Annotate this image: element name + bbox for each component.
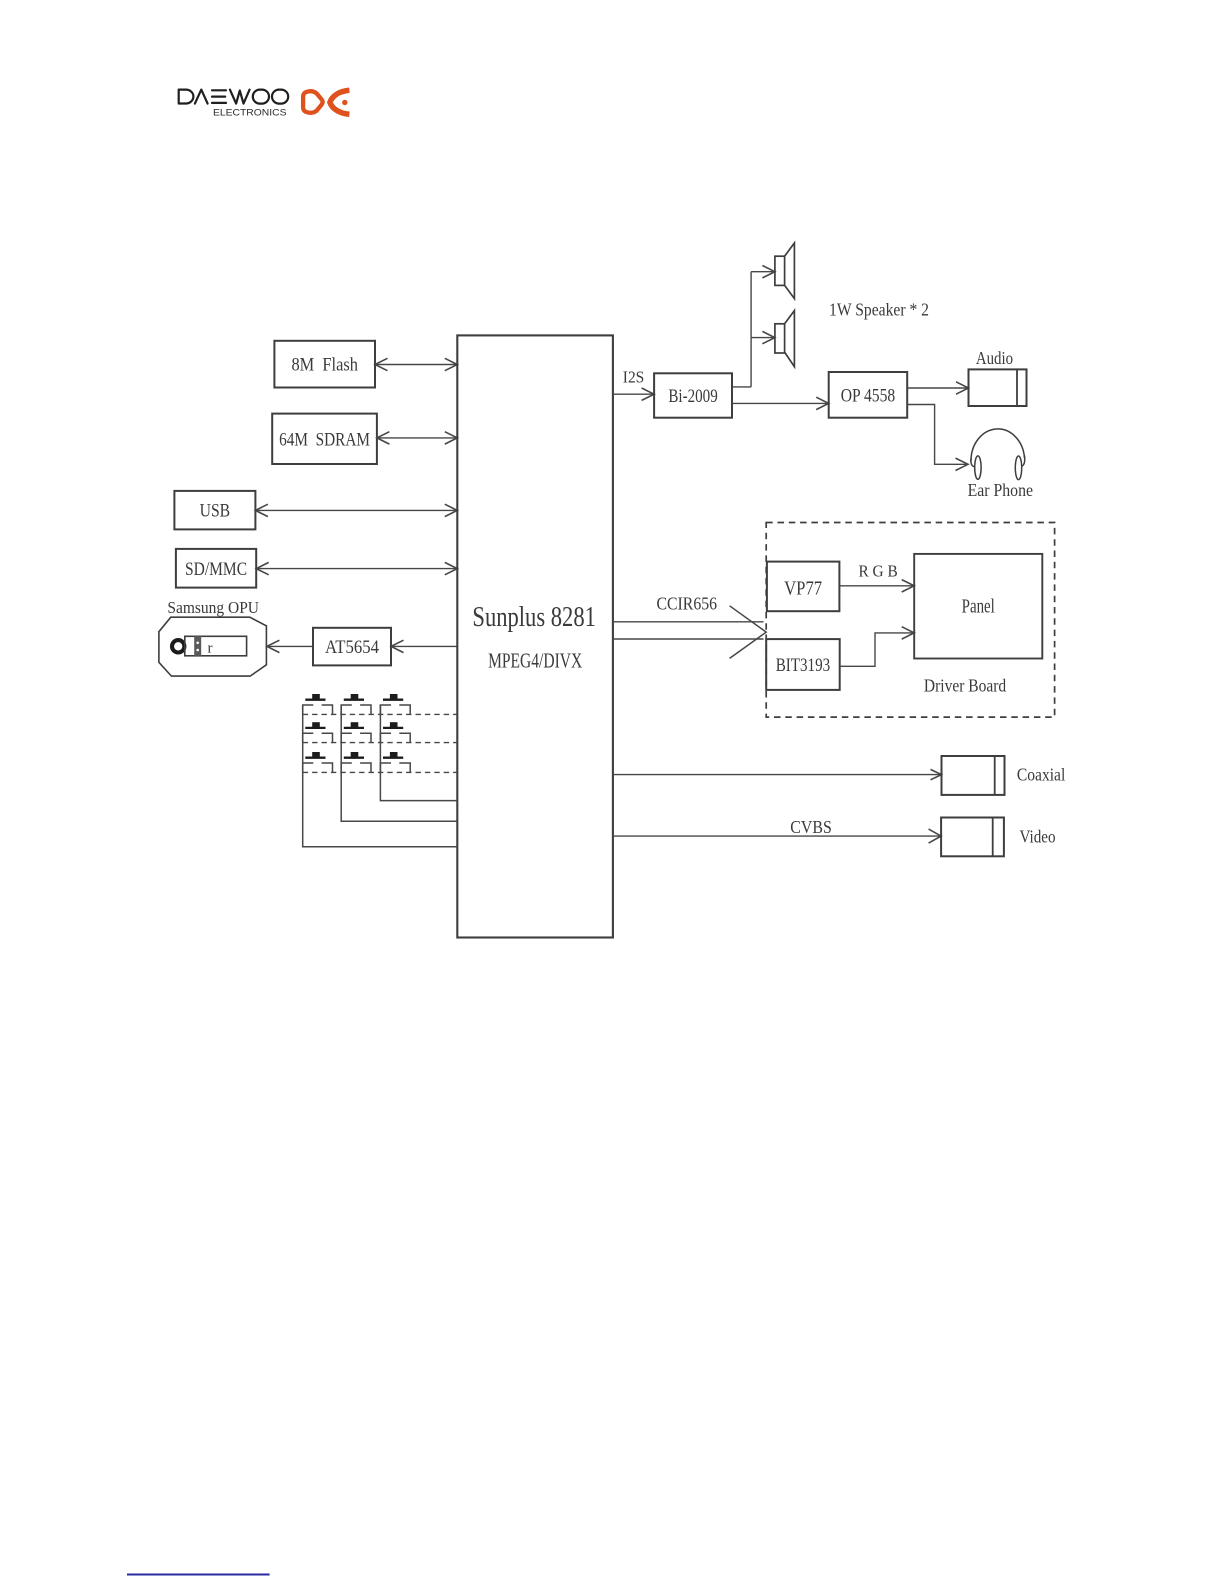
push button switch row 2 col 2	[341, 722, 371, 742]
svg-text:CVBS: CVBS	[790, 817, 832, 837]
block BIT3193	[766, 639, 840, 690]
svg-text:Coaxial: Coaxial	[1017, 764, 1066, 784]
wire OP 4558 to Audio jack (arrow right)	[907, 387, 968, 389]
wire Sunplus to AT5654 (arrow left)	[391, 645, 457, 647]
svg-text:AT5654: AT5654	[325, 637, 380, 658]
ear phone icon	[971, 429, 1025, 480]
push button switch row 3 col 2	[341, 752, 371, 772]
key matrix column 3 wire	[380, 705, 457, 801]
svg-text:R G B: R G B	[859, 562, 898, 581]
wire Bi-2009 to OP 4558 (arrow right)	[732, 402, 829, 404]
svg-text:r: r	[208, 641, 213, 657]
Daewoo logo orange dot	[342, 100, 347, 105]
CCIR656 bus wires	[613, 621, 764, 623]
svg-text:Driver Board: Driver Board	[924, 675, 1007, 695]
push button switch row 1 col 2	[341, 694, 371, 714]
Daewoo logo orange pick symbol	[303, 91, 323, 113]
wire BIT3193 to Panel	[840, 633, 915, 666]
svg-text:Samsung OPU: Samsung OPU	[167, 598, 259, 617]
svg-text:8M Flash: 8M Flash	[291, 355, 358, 376]
block USB	[174, 491, 255, 530]
wire Bi-2009 to speakers	[732, 386, 751, 388]
Daewoo logo orange C symbol	[330, 90, 350, 114]
wire AT5654 to OPU (arrow left)	[267, 645, 313, 647]
push button switch row 1 col 3	[380, 694, 410, 714]
Video connector	[941, 818, 1004, 857]
footer blue rule	[127, 1574, 270, 1576]
block 64M SDRAM	[272, 414, 377, 464]
wire SD/MMC to Sunplus (double arrow)	[256, 568, 457, 570]
svg-text:Bi-2009: Bi-2009	[668, 386, 717, 407]
svg-text:64M SDRAM: 64M SDRAM	[279, 429, 370, 450]
key matrix row 3 dashed wire	[303, 771, 458, 773]
block Panel	[914, 554, 1042, 659]
Daewoo logo wordmark DAEWOO	[179, 90, 289, 104]
svg-text:VP77: VP77	[784, 579, 822, 600]
speaker icon 1	[775, 243, 795, 299]
Coaxial connector	[942, 756, 1005, 795]
wire OP 4558 to Ear Phone	[907, 405, 968, 465]
svg-text:ELECTRONICS: ELECTRONICS	[213, 108, 287, 118]
wire USB to Sunplus (double arrow)	[255, 509, 457, 511]
svg-text:SD/MMC: SD/MMC	[185, 559, 247, 580]
svg-text:Panel: Panel	[962, 597, 996, 618]
wire 64M SDRAM to Sunplus (double arrow)	[377, 437, 457, 439]
wire Sunplus to Video CVBS (arrow right)	[613, 835, 941, 837]
OPU sled rectangle	[185, 636, 247, 656]
CCIR656 big arrowhead	[730, 606, 767, 659]
svg-text:CCIR656: CCIR656	[657, 594, 718, 614]
Audio jack connector	[969, 369, 1027, 406]
block VP77	[767, 562, 840, 612]
block Sunplus 8281 MPEG4/DIVX	[457, 335, 613, 937]
OPU lens ring	[172, 640, 184, 652]
block SD/MMC	[176, 549, 256, 588]
block 8M Flash	[274, 341, 375, 388]
key matrix column 2 wire	[341, 705, 457, 821]
wire 8M Flash to Sunplus (double arrow)	[375, 364, 457, 366]
block Bi-2009	[654, 373, 732, 417]
push button switch row 2 col 3	[380, 722, 410, 742]
push button switch row 1 col 1	[303, 694, 333, 714]
push button switch row 3 col 3	[380, 752, 410, 772]
svg-text:I2S: I2S	[623, 368, 645, 387]
svg-text:Video: Video	[1020, 826, 1056, 846]
svg-text:1W Speaker * 2: 1W Speaker * 2	[829, 300, 929, 320]
svg-text:MPEG4/DIVX: MPEG4/DIVX	[488, 649, 582, 673]
push button switch row 3 col 1	[303, 752, 333, 772]
Driver Board dashed boundary	[766, 523, 1054, 718]
svg-text:Ear Phone: Ear Phone	[968, 480, 1033, 500]
wire Sunplus to Bi-2009 I2S (arrow right)	[613, 393, 654, 395]
block OP 4558	[829, 372, 908, 418]
svg-text:Audio: Audio	[976, 348, 1013, 368]
OPU sled dark stripe	[194, 636, 201, 656]
svg-text:USB: USB	[200, 501, 231, 522]
block AT5654	[313, 628, 391, 666]
speaker icon 2	[775, 311, 795, 367]
svg-text:OP 4558: OP 4558	[841, 385, 896, 406]
key matrix column 1 wire	[303, 705, 458, 847]
push button switch row 2 col 1	[303, 722, 333, 742]
Samsung OPU pickup outline	[159, 617, 267, 676]
wire Sunplus to Coaxial (arrow right)	[613, 774, 942, 776]
key matrix row 1 dashed wire	[303, 713, 458, 715]
svg-text:BIT3193: BIT3193	[776, 655, 831, 676]
key matrix row 2 dashed wire	[303, 742, 458, 744]
svg-text:Sunplus 8281: Sunplus 8281	[472, 601, 596, 633]
wire VP77 to Panel (arrow right)	[839, 585, 914, 587]
